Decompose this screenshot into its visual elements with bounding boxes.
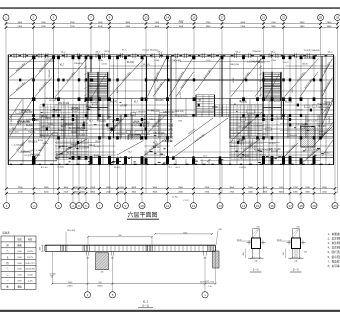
plan bottom exterior wall line [8, 164, 334, 166]
svg-text:KL3(2): KL3(2) [26, 125, 33, 127]
left panel diagonal [117, 141, 144, 156]
svg-text:KL1(2) 240x500: KL1(2) 240x500 [305, 149, 322, 151]
extra short rebar dashes bottom band [56, 146, 324, 163]
svg-text:B-2: B-2 [18, 124, 22, 126]
svg-text:25: 25 [319, 16, 323, 20]
svg-text:14: 14 [166, 16, 170, 20]
beam top dimension 900 [88, 236, 152, 238]
svg-text:WL-2: WL-2 [158, 52, 164, 54]
svg-text:WL-2: WL-2 [61, 52, 67, 54]
svg-text:7.10: 7.10 [208, 286, 212, 288]
beam stirrup tick clusters [61, 245, 214, 251]
bottom dimension numbers [18, 187, 328, 194]
svg-text:三: 三 [6, 268, 9, 271]
beam detail axis bubble 5 [109, 292, 115, 298]
svg-text:Φ8@200通长: Φ8@200通长 [37, 61, 48, 73]
svg-text:240: 240 [296, 226, 299, 228]
storey level table [1, 236, 36, 289]
svg-text:B-1.00: B-1.00 [250, 147, 257, 149]
open panel long diagonal 2 [174, 118, 213, 147]
svg-text:B120: B120 [233, 77, 235, 83]
svg-text:3.30: 3.30 [17, 251, 22, 253]
svg-text:层高表: 层高表 [2, 231, 10, 235]
stair core left unit [89, 73, 108, 101]
svg-text:4700: 4700 [179, 21, 184, 23]
svg-text:XL1: XL1 [122, 50, 127, 52]
bold interior wall segments [8, 55, 333, 165]
svg-text:L-3 240x400: L-3 240x400 [19, 152, 32, 154]
svg-text:Φ8@200通长: Φ8@200通长 [120, 71, 131, 83]
svg-text:7、构造柱见结构说明: 7、构造柱见结构说明 [328, 259, 340, 263]
stair core bold side walls extended [88, 72, 281, 120]
svg-text:KL7: KL7 [153, 142, 158, 144]
interior vertical dimension chain right unit [259, 58, 261, 97]
svg-text:240: 240 [101, 272, 104, 274]
svg-text:4200(标高+150): 4200(标高+150) [200, 280, 215, 284]
svg-text:B-1.00: B-1.00 [117, 86, 119, 93]
column section 1-1 bold core [252, 238, 261, 249]
svg-text:B-2: B-2 [12, 129, 16, 131]
svg-text:L-3 240x400: L-3 240x400 [49, 69, 51, 81]
svg-text:Φ8@150: Φ8@150 [230, 63, 240, 66]
svg-text:KL5(1): KL5(1) [28, 131, 35, 133]
svg-text:B120: B120 [55, 99, 61, 101]
svg-text:WKL2(3): WKL2(3) [257, 133, 266, 135]
scattered tiny beam and slab labels [8, 50, 331, 170]
svg-text:B120: B120 [303, 64, 309, 66]
svg-text:KL5(1): KL5(1) [143, 64, 150, 66]
svg-text:C100: C100 [206, 60, 212, 62]
plan title underline [127, 218, 159, 220]
beam elevation right end plate [215, 245, 217, 251]
svg-text:KL5(1): KL5(1) [67, 153, 74, 155]
top wall window dash row [10, 55, 327, 57]
svg-text:L-1 240x300: L-1 240x300 [251, 125, 264, 127]
svg-text:240: 240 [86, 258, 89, 260]
svg-text:KL7: KL7 [134, 102, 139, 104]
beam detail axis bubble 2 [84, 292, 90, 298]
svg-text:5.100: 5.100 [43, 143, 49, 145]
svg-text:20: 20 [333, 204, 337, 208]
svg-text:Φ8@200通长: Φ8@200通长 [14, 80, 26, 91]
svg-text:L-1 240x300: L-1 240x300 [300, 58, 313, 60]
interior vertical dimension chain left unit [84, 58, 86, 97]
fine room mesh right unit [216, 105, 264, 136]
svg-text:300: 300 [283, 252, 285, 255]
storey level table texts [6, 237, 35, 288]
beam elevation top flange line [45, 244, 216, 246]
svg-text:WKL2(3): WKL2(3) [28, 142, 37, 144]
svg-text:L-1 240x300: L-1 240x300 [134, 111, 147, 113]
svg-text:B100: B100 [71, 132, 77, 134]
svg-text:LB1 h=120: LB1 h=120 [306, 120, 317, 122]
svg-text:Φ8@200通长: Φ8@200通长 [295, 71, 306, 83]
svg-text:240: 240 [304, 251, 307, 253]
svg-text:LB1 h=120: LB1 h=120 [58, 103, 70, 105]
svg-text:KL1(2) 240x500: KL1(2) 240x500 [143, 50, 159, 52]
fine room mesh right unit lower [231, 139, 263, 160]
svg-text:KL1(2) 240x500: KL1(2) 240x500 [131, 125, 147, 127]
svg-text:Φ8@150: Φ8@150 [40, 134, 50, 137]
svg-text:二: 二 [6, 274, 9, 277]
svg-text:7.170: 7.170 [183, 200, 189, 202]
svg-text:14: 14 [242, 204, 246, 208]
svg-text:六层平面图: 六层平面图 [127, 211, 157, 219]
svg-text:240: 240 [254, 261, 257, 263]
column section 2-2 base line [288, 257, 304, 259]
svg-text:h=100: h=100 [242, 155, 249, 157]
svg-text:屋面: 屋面 [17, 243, 22, 247]
svg-text:KL3(2): KL3(2) [239, 167, 246, 169]
right edge diagonal band extra [10, 99, 334, 160]
svg-text:Φ8@150: Φ8@150 [31, 153, 41, 156]
svg-text:HM20: HM20 [97, 286, 102, 288]
svg-text:WKL2(3): WKL2(3) [116, 133, 125, 135]
svg-text:2、未注明板面标高同结构: 2、未注明板面标高同结构 [328, 236, 340, 240]
svg-text:B120: B120 [38, 140, 44, 142]
svg-text:240x400: 240x400 [289, 135, 298, 137]
vertical grid axis lines from bottom bubbles [7, 56, 336, 203]
svg-text:12: 12 [192, 204, 196, 208]
svg-text:6.15/2.85: 6.15/2.85 [25, 269, 35, 271]
svg-text:XL1: XL1 [144, 154, 149, 156]
plan right exterior wall [333, 55, 335, 165]
plan top exterior wall double line [8, 54, 334, 56]
beam labels above top wall [61, 52, 334, 54]
svg-text:17: 17 [288, 204, 292, 208]
svg-text:B100: B100 [212, 107, 218, 109]
interior horizontal beam lines [8, 62, 334, 161]
svg-text:1—1: 1—1 [253, 268, 259, 272]
svg-text:KL5(1): KL5(1) [47, 59, 54, 61]
svg-text:LB1 h=120: LB1 h=120 [153, 133, 165, 135]
svg-text:1、本图未注明板厚均为100: 1、本图未注明板厚均为100 [328, 232, 340, 236]
svg-text:3.30: 3.30 [17, 281, 22, 283]
svg-text:21: 21 [262, 16, 266, 20]
general notes list [328, 232, 340, 268]
bottom dimension chain line 2 [7, 192, 336, 194]
column section 2-2 upper column [293, 229, 300, 239]
svg-text:KL1(2) 240x500: KL1(2) 240x500 [254, 150, 271, 152]
open panel faint verticals [194, 117, 221, 159]
bottom grid bubbles with axis numbers [4, 203, 339, 209]
svg-text:Φ8@200通长: Φ8@200通长 [285, 143, 296, 154]
svg-text:9.45·7.17: 9.45·7.17 [25, 263, 35, 265]
open panel long diagonal 1 [174, 118, 228, 157]
redraw columns on open panel bottom beam [192, 156, 194, 159]
svg-text:18: 18 [299, 204, 303, 208]
svg-text:2Φ14: 2Φ14 [149, 118, 155, 121]
svg-text:L-3 240x400: L-3 240x400 [168, 61, 181, 63]
plan bottom interior beam line [55, 157, 334, 159]
column section 2-2 bold core [292, 238, 301, 249]
svg-text:240×300: 240×300 [67, 229, 76, 232]
svg-text:2—2: 2—2 [293, 268, 299, 272]
beam detail axis bubble 1 [202, 292, 208, 298]
extra column blobs row [19, 79, 322, 144]
beam detail drop lines to dimension [53, 251, 216, 283]
svg-text:GL-2: GL-2 [61, 126, 67, 128]
svg-text:C100: C100 [98, 60, 104, 62]
svg-text:240x400: 240x400 [71, 109, 81, 111]
svg-text:47700: 47700 [172, 196, 178, 198]
svg-text:B-1.00: B-1.00 [41, 167, 48, 169]
open panel white patch left unit [116, 140, 145, 156]
svg-text:240: 240 [218, 229, 222, 231]
vertical beam labels [11, 69, 331, 138]
svg-text:Φ8@200通长: Φ8@200通长 [65, 71, 76, 83]
svg-text:±0.00: ±0.00 [27, 275, 33, 277]
bottom dimension tick marks [5, 187, 336, 195]
svg-text:WL-2: WL-2 [271, 52, 277, 54]
svg-text:6、厨房阳台板面降标高: 6、厨房阳台板面降标高 [328, 255, 340, 259]
svg-text:六: 六 [6, 249, 9, 253]
svg-text:B100: B100 [324, 152, 330, 154]
middle band room wall double lines vertical [40, 115, 319, 138]
svg-text:一: 一 [6, 280, 9, 283]
svg-text:B100: B100 [46, 118, 52, 120]
svg-text:B-1.00: B-1.00 [319, 126, 326, 128]
corridor bold wall line [146, 79, 281, 81]
beam detail axis drop to bubbles [88, 284, 206, 293]
svg-text:8、未尽事宜详见说明: 8、未尽事宜详见说明 [328, 264, 340, 268]
svg-text:4、未注明梁定位均轴线: 4、未注明梁定位均轴线 [328, 246, 340, 250]
svg-text:Φ8@200通长: Φ8@200通长 [322, 80, 331, 93]
svg-text:WL-2: WL-2 [96, 52, 102, 54]
svg-text:KL3(2): KL3(2) [57, 167, 64, 169]
svg-text:基: 基 [6, 284, 9, 288]
svg-text:基础: 基础 [17, 284, 22, 288]
svg-text:3.30: 3.30 [17, 275, 22, 277]
svg-text:下6.970: 下6.970 [284, 101, 293, 104]
svg-text:2Φ14: 2Φ14 [134, 120, 140, 123]
svg-text:XL-1: XL-1 [143, 300, 149, 304]
svg-text:WL-2: WL-2 [236, 52, 242, 54]
small opening rectangles in rooms [16, 105, 325, 136]
svg-text:400: 400 [40, 247, 42, 250]
support width labels 240 [86, 258, 207, 260]
top dimension chain line 1 [6, 23, 338, 25]
window labels under top wall [98, 60, 277, 62]
svg-text:5.100: 5.100 [36, 150, 42, 152]
stair flight lower middle [196, 95, 215, 113]
svg-text:3.30: 3.30 [17, 263, 22, 265]
svg-text:L-3 240x400: L-3 240x400 [247, 62, 260, 64]
svg-text:22: 22 [282, 16, 286, 20]
reinforcement text along diagonals [14, 61, 331, 160]
window opening ticks on top exterior wall [14, 53, 309, 58]
svg-text:11: 11 [166, 204, 169, 208]
svg-text:240: 240 [111, 258, 114, 260]
stair core extra treads [88, 72, 281, 120]
svg-text:WL-2: WL-2 [328, 52, 334, 54]
svg-text:HM10: HM10 [67, 286, 72, 288]
svg-text:3.30: 3.30 [17, 257, 22, 259]
svg-text:KL7: KL7 [89, 121, 94, 123]
svg-text:26: 26 [336, 16, 340, 20]
svg-text:层高: 层高 [17, 237, 22, 241]
svg-text:13: 13 [218, 204, 222, 208]
beam detail double column edges under supports [86, 251, 206, 283]
svg-text:KL3(2): KL3(2) [127, 62, 134, 64]
svg-text:12.75: 12.75 [27, 257, 33, 259]
concrete column blobs at grid intersections [32, 56, 322, 164]
beam top dimension 1500 [155, 233, 212, 235]
svg-text:h=100: h=100 [83, 147, 90, 149]
svg-text:13: 13 [144, 16, 148, 20]
svg-text:KL1(2) 240x500: KL1(2) 240x500 [304, 50, 320, 52]
top grid bubbles with axis numbers [3, 15, 340, 21]
svg-text:LB1 h=120: LB1 h=120 [18, 121, 30, 123]
hatched support column right under beam [213, 251, 219, 268]
svg-text:Φ8@200通长: Φ8@200通长 [14, 61, 26, 72]
svg-text:Φ8@200通长: Φ8@200通长 [175, 70, 185, 82]
svg-text:5.100: 5.100 [260, 155, 266, 157]
svg-text:LB1 h=120: LB1 h=120 [8, 131, 19, 133]
svg-text:XL1: XL1 [168, 167, 173, 169]
svg-text:KL3(2): KL3(2) [54, 110, 61, 112]
svg-text:KL3(2): KL3(2) [94, 146, 101, 148]
beam sparse stirrups [95, 245, 203, 251]
svg-text:Φ8@200通长: Φ8@200通长 [303, 77, 313, 89]
svg-text:L-3 240x400: L-3 240x400 [12, 144, 25, 146]
svg-text:240x450: 240x450 [74, 63, 83, 65]
middle band room wall double lines horizontal [8, 116, 334, 136]
svg-text:KL5(1): KL5(1) [240, 102, 247, 104]
vertical grid axis lines from top bubbles [6, 20, 338, 193]
stair core right unit [264, 73, 281, 101]
fine room mesh left unit [40, 105, 88, 136]
svg-text:h=100: h=100 [180, 91, 182, 98]
svg-text:5、围栏见建施图说明: 5、围栏见建施图说明 [328, 250, 340, 254]
svg-text:L-1 240x300: L-1 240x300 [273, 118, 286, 120]
top dimension chain line 2 [6, 27, 338, 29]
redraw bottom beam line across open panel [173, 157, 229, 159]
svg-text:LB1 h=120: LB1 h=120 [269, 101, 280, 103]
svg-text:LB1 h=120: LB1 h=120 [163, 112, 175, 114]
svg-text:Φ8@150: Φ8@150 [65, 123, 75, 126]
svg-text:240x400: 240x400 [155, 100, 165, 102]
column section 1-1 base line [248, 257, 264, 259]
svg-text:下6.970: 下6.970 [109, 101, 118, 104]
svg-text:五: 五 [6, 256, 9, 259]
svg-text:Φ8@200通长: Φ8@200通长 [37, 80, 48, 92]
column section 1-1 upper column [253, 229, 259, 239]
svg-text:KL5(1): KL5(1) [165, 140, 172, 142]
svg-text:B100: B100 [105, 51, 111, 53]
svg-text:Φ8@150: Φ8@150 [21, 109, 31, 112]
plan bottom left wall upper line [8, 160, 57, 162]
svg-text:Φ8@200通长: Φ8@200通长 [202, 68, 212, 80]
open panel thin horizontal [173, 151, 229, 153]
beam elevation left end plate [44, 245, 46, 251]
svg-text:闭: 闭 [6, 243, 8, 247]
column section 2-2 side ticks [287, 241, 306, 245]
svg-text:240x400: 240x400 [252, 51, 261, 53]
svg-text:-1.05: -1.05 [28, 281, 34, 283]
svg-text:19: 19 [312, 204, 316, 208]
svg-text:GL-2: GL-2 [90, 145, 96, 147]
svg-text:3、未注明板配筋均为Φ8: 3、未注明板配筋均为Φ8 [328, 241, 340, 245]
svg-text:C100: C100 [271, 60, 277, 62]
svg-text:15: 15 [256, 204, 260, 208]
svg-text:Φ8@150: Φ8@150 [31, 128, 41, 131]
svg-text:WKL2(3): WKL2(3) [151, 111, 160, 113]
svg-text:B100: B100 [95, 141, 101, 143]
svg-text:B-1.00: B-1.00 [271, 151, 278, 153]
svg-text:WKL2(3): WKL2(3) [175, 111, 184, 113]
svg-text:GL-2: GL-2 [284, 62, 290, 64]
open panel white patch right unit [173, 117, 229, 159]
column section 2-2 lower column double [293, 249, 300, 259]
svg-text:±0.000: ±0.000 [49, 274, 56, 276]
svg-text:标高: 标高 [28, 237, 33, 241]
svg-text:B100: B100 [94, 155, 100, 157]
svg-text:15: 15 [192, 16, 196, 20]
extra short rebar dashes middle band [25, 100, 323, 135]
fine room mesh left unit lower [56, 139, 88, 160]
svg-text:240: 240 [256, 226, 259, 228]
svg-text:17: 17 [220, 16, 224, 20]
svg-text:B-2: B-2 [240, 144, 244, 146]
svg-text:KL3(2): KL3(2) [269, 143, 276, 145]
svg-text:KL7: KL7 [60, 65, 65, 67]
top dimension numbers [17, 22, 332, 28]
hatched shaft right unit [280, 126, 335, 147]
svg-text:B120: B120 [92, 104, 98, 106]
svg-text:KL7: KL7 [232, 133, 237, 135]
svg-text:10: 10 [140, 204, 144, 208]
slab span diagonal lines with reinforcement labels [10, 59, 334, 164]
svg-text:B100: B100 [318, 107, 324, 109]
svg-text:KL7: KL7 [248, 116, 253, 118]
svg-text:WKL2(3): WKL2(3) [238, 126, 247, 128]
svg-text:WKL2(3): WKL2(3) [97, 121, 106, 123]
svg-text:C100: C100 [154, 60, 160, 62]
top dimension tick marks [5, 22, 339, 29]
beam depth dimension left [41, 245, 43, 251]
svg-text:B120: B120 [297, 109, 303, 111]
interior vertical beam lines [23, 56, 326, 165]
bottom dimension chain line 1 [7, 187, 336, 189]
svg-text:四: 四 [6, 262, 8, 265]
svg-text:240x400: 240x400 [142, 134, 151, 136]
beam bottom dimension line [53, 283, 216, 285]
svg-text:L-1 240x300: L-1 240x300 [296, 124, 309, 126]
svg-text:240: 240 [294, 261, 297, 263]
svg-text:400: 400 [243, 252, 245, 255]
svg-text:(1—1): (1—1) [142, 305, 149, 308]
svg-text:Φ8@200通长: Φ8@200通长 [322, 61, 331, 74]
svg-text:5.100: 5.100 [122, 104, 128, 106]
column section 1-1 lower column [253, 249, 259, 259]
svg-text:16: 16 [270, 204, 274, 208]
svg-text:3.30: 3.30 [17, 269, 22, 271]
svg-text:240x450: 240x450 [329, 115, 331, 124]
svg-text:KL3(2): KL3(2) [114, 167, 121, 169]
svg-text:KL7: KL7 [80, 130, 85, 132]
plan left exterior wall [7, 55, 9, 165]
svg-text:2Φ14: 2Φ14 [113, 125, 119, 128]
sheet top border line [0, 7, 340, 8]
svg-text:16.05: 16.05 [27, 251, 33, 253]
svg-text:240: 240 [204, 258, 207, 260]
extra scattered labels dense [12, 58, 331, 157]
svg-text:5.100: 5.100 [101, 64, 107, 66]
sheet bottom border line [0, 310, 340, 312]
svg-text:LB1 h=120: LB1 h=120 [269, 149, 281, 151]
bottom wall dash row [10, 163, 330, 165]
